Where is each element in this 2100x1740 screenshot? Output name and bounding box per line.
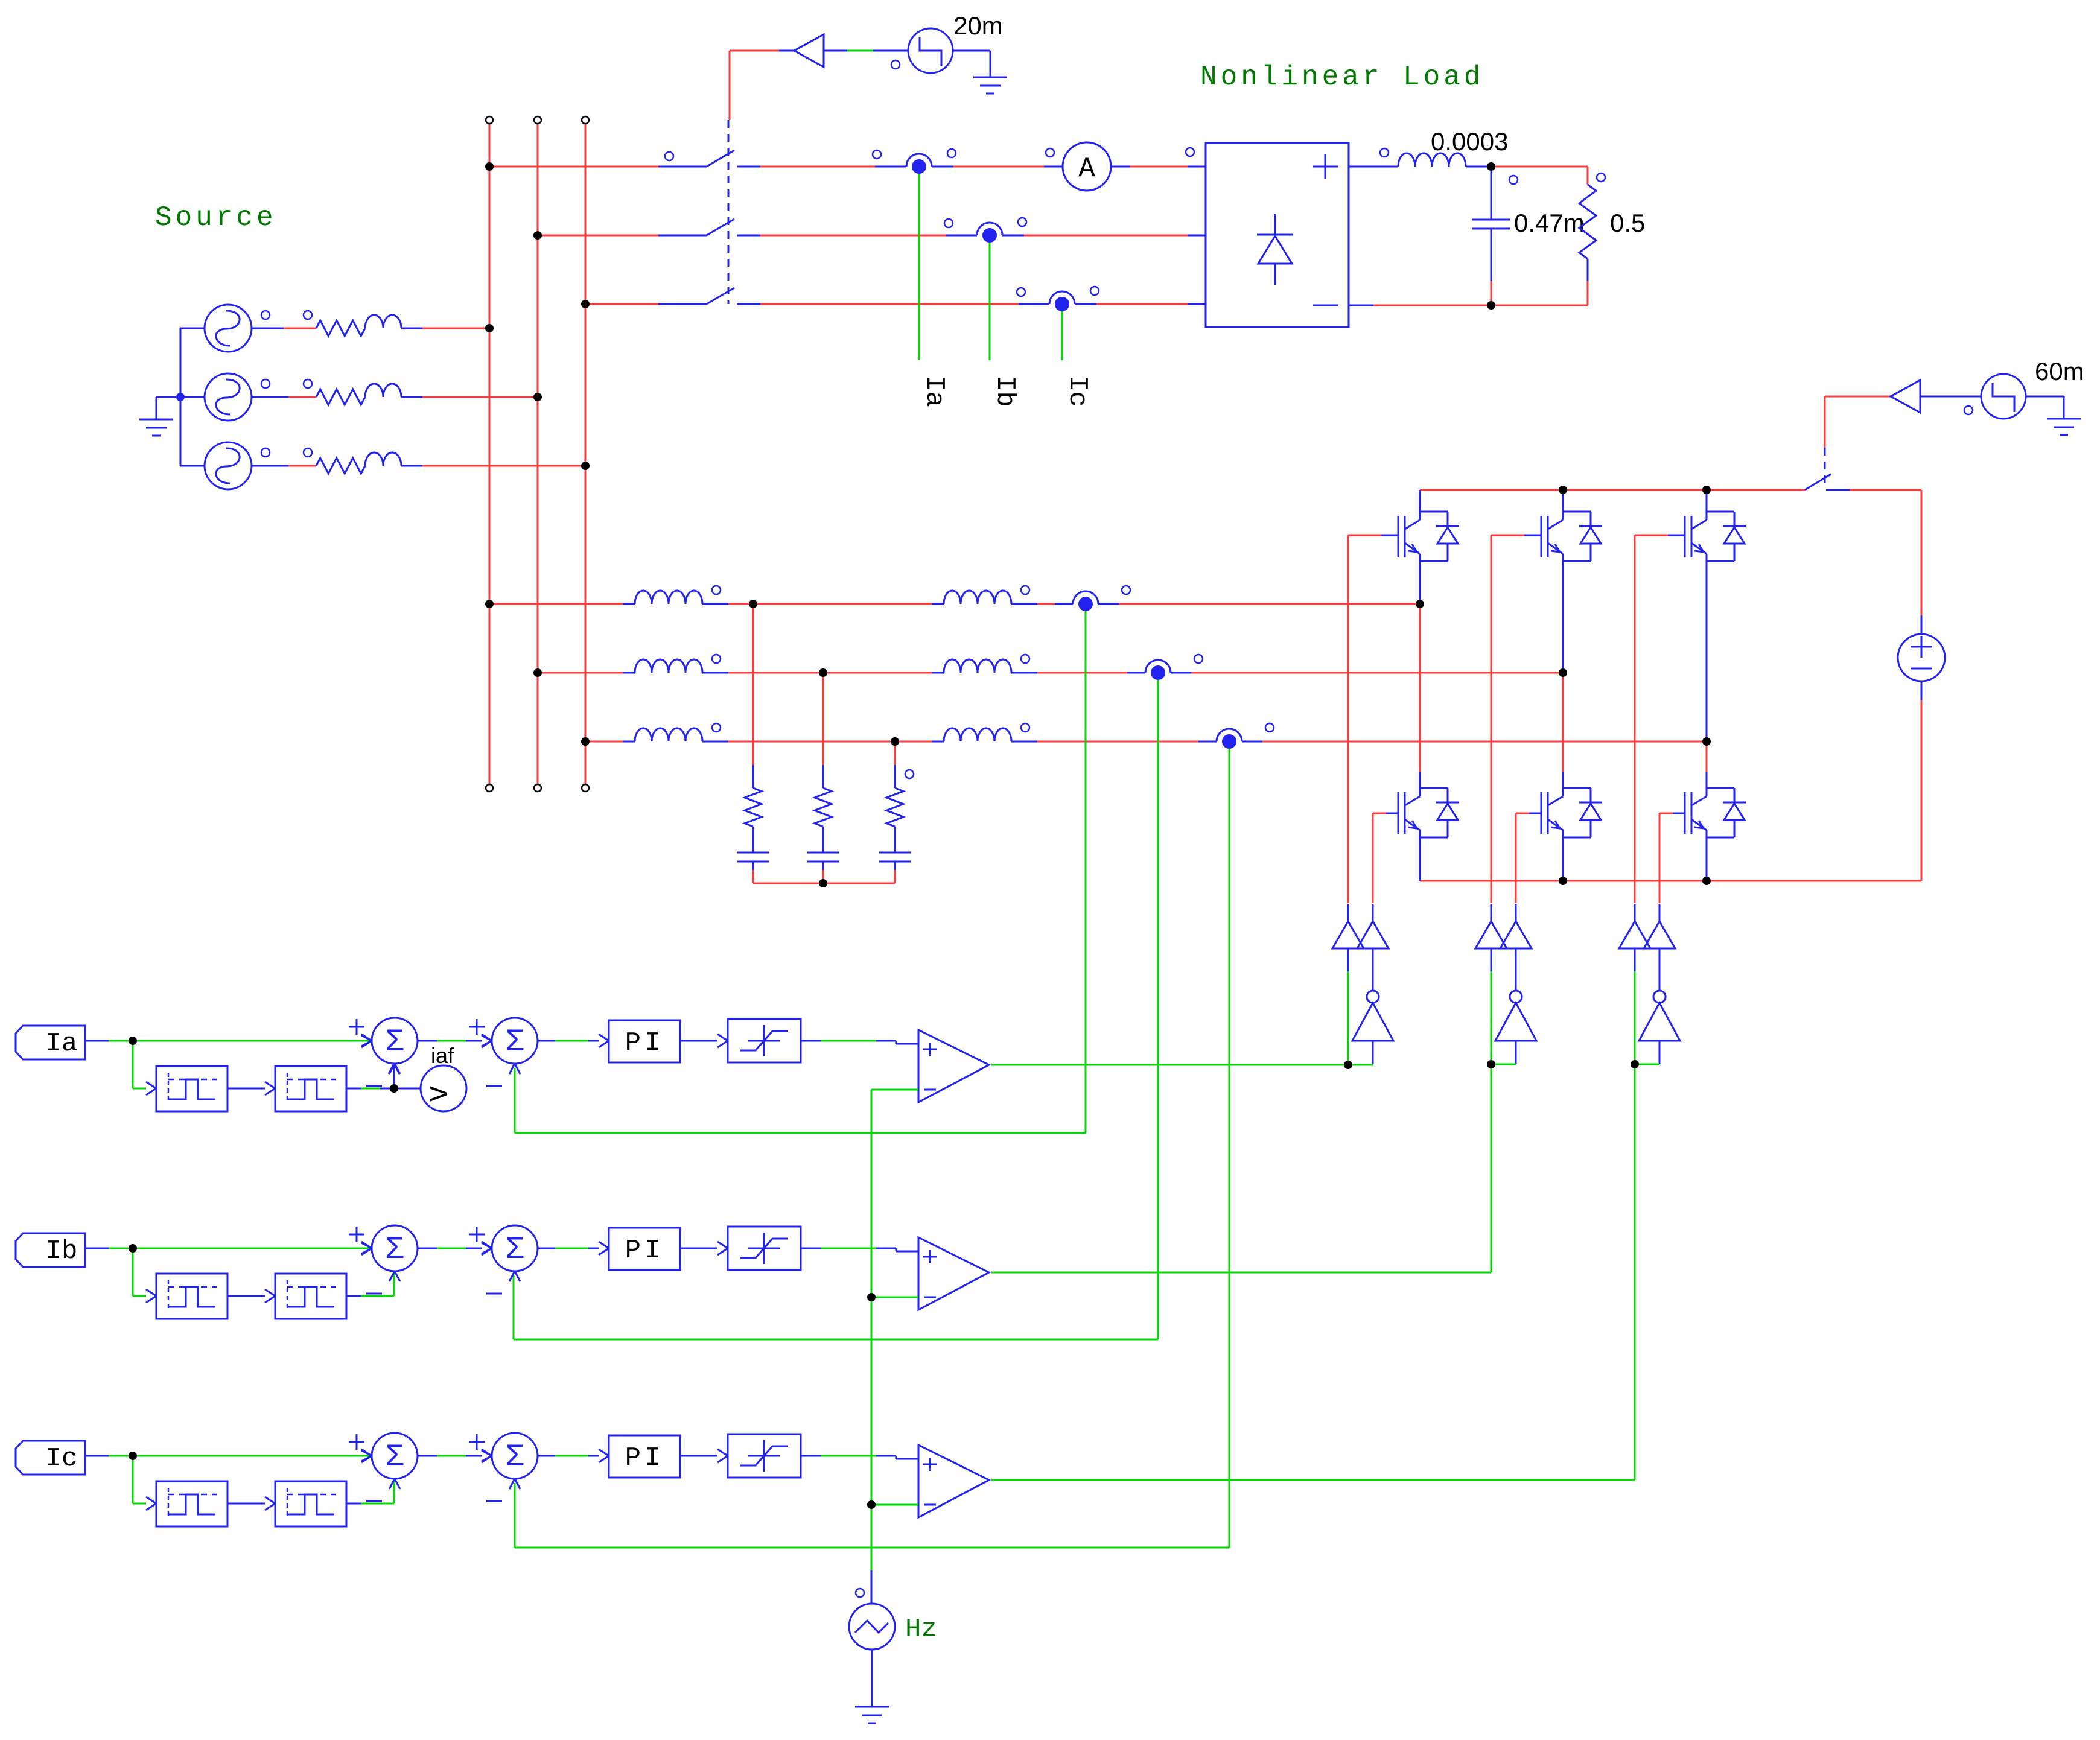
gating block pair leg3 [1619, 904, 1675, 971]
wire row1 ammeter-rectifier [1111, 148, 1206, 167]
wire sensor to leg 3 [1242, 741, 1707, 743]
wire row2 breaker-sensor [737, 235, 977, 237]
text Hz [905, 1615, 937, 1645]
wire Sc2 to PI c [538, 1449, 609, 1462]
net label triangle 20m [794, 34, 824, 67]
gating block pair leg2 [1475, 904, 1532, 971]
step source 60m [1964, 374, 2026, 419]
node RC branch b [819, 668, 827, 677]
resistor Rs3 [304, 448, 365, 474]
wire comparator b output [991, 1064, 1516, 1272]
wire L1a to node [702, 603, 753, 605]
node bottom bus leg3 [1702, 877, 1711, 885]
wire bus to L1a [489, 603, 635, 605]
svg-text:Ia: Ia [46, 1029, 78, 1059]
ground 60m [2047, 419, 2081, 435]
wire leg1 phase [1419, 561, 1421, 604]
node load top [1487, 162, 1495, 171]
wire source neutral [180, 328, 205, 466]
wire leg3 emitter to bus [1706, 837, 1708, 881]
node bus1 source [485, 324, 494, 332]
wire leg2 mid drop [1562, 673, 1564, 788]
switch S3 blade [707, 288, 734, 304]
svg-text:Source: Source [155, 202, 277, 233]
svg-text:20m: 20m [953, 11, 1003, 40]
on-off controller block c2 [275, 1481, 346, 1526]
transistor Q1' (bottom IGBT + diode) [1398, 788, 1459, 837]
text iaf [431, 1043, 454, 1068]
wire gate a up [1347, 971, 1349, 1064]
node phase 1 [1416, 600, 1424, 608]
node bus3 apf tap [581, 737, 590, 746]
wire ib feedback [514, 680, 1158, 1339]
wire gate column right leg1 [1372, 813, 1374, 903]
wire rectifier minus [1349, 305, 1588, 306]
wire gate b up [1491, 971, 1492, 1064]
ac source VC [205, 442, 270, 489]
wire gate column left leg2 [1491, 535, 1492, 903]
wire to bus 3 [401, 465, 585, 467]
text 20m [953, 11, 1003, 40]
wire step source to ground [953, 51, 990, 77]
net label triangle 60m [1891, 380, 1920, 413]
inductor L1a [635, 586, 721, 604]
limiter block c [728, 1434, 801, 1478]
wire filter out a [346, 1088, 394, 1090]
wire row3 breaker-sensor [737, 303, 1049, 305]
text label 'Nonlinear Load' [1200, 62, 1484, 93]
comparator b [918, 1237, 989, 1310]
wire leg2 emitter to bus [1562, 837, 1564, 881]
wire Sa2 to PI a [538, 1034, 609, 1047]
wire probe Ib [989, 243, 991, 360]
node bus2 apf tap [533, 668, 542, 677]
wire ic feedback [515, 749, 1229, 1548]
svg-text:0.5: 0.5 [1610, 209, 1645, 237]
wire PI to limiter a [680, 1034, 728, 1047]
node top bus leg2 [1559, 486, 1567, 494]
wire 60m to ground [2026, 396, 2064, 419]
current sensor iaf [1073, 586, 1130, 611]
svg-text:Σ: Σ [505, 1232, 524, 1268]
sum block Sa2 [482, 1018, 538, 1074]
ac source VB [205, 373, 270, 421]
gating block pair leg1 [1332, 904, 1389, 971]
on-off controller block a1 [156, 1066, 227, 1111]
node RC branch a [749, 600, 757, 608]
node iaf tap [390, 1084, 398, 1093]
wire to bus 2 [401, 396, 538, 398]
wire sensor to leg 1 [1098, 603, 1420, 605]
ammeter A [1046, 142, 1111, 191]
svg-text:PI: PI [625, 1028, 664, 1058]
comparator a [918, 1030, 989, 1102]
ground source [139, 397, 180, 436]
transistor Q1 (top IGBT + diode) [1398, 512, 1459, 561]
inductor L1b [635, 655, 721, 673]
wire row2 sensor-rectifier [1002, 218, 1206, 235]
wire L2c to sensor [1011, 741, 1217, 743]
text probe label Ia [919, 375, 949, 407]
wire gate bottom Q3' [1659, 813, 1685, 814]
svg-text:Ib: Ib [46, 1236, 78, 1266]
svg-text:60m: 60m [2035, 357, 2084, 386]
text plus Sc1 [349, 1434, 364, 1450]
on-off controller block b2 [275, 1274, 346, 1319]
wire limiter to comparator c [801, 1456, 918, 1459]
wire gate column left leg1 [1347, 535, 1349, 903]
wire PI to limiter b [680, 1242, 728, 1255]
svg-text:Σ: Σ [385, 1440, 404, 1475]
wire row3 sensor-rectifier [1075, 287, 1206, 304]
svg-text:0.47m: 0.47m [1514, 209, 1585, 237]
wire comparator a output [991, 1064, 1373, 1066]
wire dc source to bottom bus [1921, 681, 1923, 881]
svg-text:Ic: Ic [1062, 375, 1092, 407]
node bus3 top tap [581, 300, 590, 308]
wire dc top bus [1420, 489, 1805, 491]
svg-text:Σ: Σ [505, 1440, 524, 1475]
node bus1 top tap [485, 162, 494, 171]
wire Sa1 to Sa2 [418, 1034, 492, 1047]
limiter block b [728, 1227, 801, 1270]
input tag Ia [16, 1026, 85, 1059]
resistor Rs2 [304, 379, 365, 405]
inverter (NOT) gate leg3 [1639, 971, 1680, 1064]
ground Hz [855, 1707, 889, 1723]
sum block Sb1 [361, 1225, 418, 1281]
wire leg3 phase [1706, 561, 1708, 741]
svg-text:Σ: Σ [385, 1024, 404, 1060]
wire row1 to breaker [489, 166, 707, 168]
wire rectifier plus [1349, 166, 1398, 168]
svg-text:iaf: iaf [431, 1043, 454, 1068]
svg-text:Nonlinear Load: Nonlinear Load [1200, 62, 1484, 93]
wire gate top Q3 [1635, 535, 1685, 536]
inductor Ls3 [365, 452, 401, 466]
wire tag Ia out [86, 1034, 372, 1047]
inductor Ldc 0.0003 [1380, 148, 1466, 167]
wire leg3 mid drop [1706, 741, 1708, 788]
wire block link b [227, 1289, 275, 1303]
wire leg1 emitter to bus [1419, 837, 1421, 881]
wire L1b to node [702, 672, 823, 674]
svg-text:Σ: Σ [505, 1024, 524, 1060]
node phase 3 [1702, 737, 1711, 746]
wire leg1 top drop [1419, 490, 1421, 512]
wire inductor-node [1466, 166, 1491, 168]
text 0.47m [1514, 209, 1585, 237]
text 60m [2035, 357, 2084, 386]
wire up to sum1 a [389, 1064, 399, 1088]
wire tag Ib out [86, 1242, 372, 1255]
resistor Rdc 0.5 [1579, 167, 1605, 305]
current sensor Ic top [1017, 288, 1075, 311]
transistor Q2 (top IGBT + diode) [1541, 512, 1602, 561]
wire tag Ic out [86, 1449, 372, 1462]
wire gate c up [1634, 971, 1636, 1064]
wire hz to ground [871, 1650, 873, 1707]
inductor L1c [635, 723, 721, 741]
current sensor ibf [1145, 655, 1203, 680]
PI block a [609, 1020, 680, 1062]
wire gate column left leg3 [1634, 535, 1636, 903]
node tap Ic [129, 1452, 137, 1460]
wire sensor to leg 2 [1171, 672, 1563, 674]
node source neutral [176, 393, 185, 401]
svg-text:PI: PI [625, 1236, 664, 1266]
node tap Ib [129, 1244, 137, 1253]
text probe label Ib [990, 375, 1020, 407]
bus b vertical [534, 116, 541, 792]
wire leg1 mid drop [1419, 604, 1421, 788]
wire bus to L1b [538, 672, 635, 674]
wire comparator minus column [871, 1090, 918, 1570]
svg-text:Ib: Ib [990, 375, 1020, 407]
wire row1 sensor-ammeter [932, 166, 1063, 168]
svg-text:Ic: Ic [46, 1444, 78, 1474]
input tag Ic [16, 1441, 85, 1475]
wire drop to filter Ic [133, 1456, 156, 1510]
bus a vertical [486, 116, 493, 792]
wire load top [1491, 166, 1588, 168]
switch S60 blade [1805, 474, 1831, 490]
breaker gang dashed link [728, 120, 730, 304]
wire S60 to dc source [1826, 490, 1921, 634]
dc source Vdc [1898, 634, 1945, 681]
node RC bottom [819, 879, 827, 887]
wire triangle to step source 20m [824, 50, 908, 52]
node load bottom [1487, 301, 1495, 310]
bus c vertical [582, 116, 589, 792]
node bottom bus leg2 [1559, 877, 1567, 885]
rectifier bridge BD1 [1206, 143, 1349, 327]
text minus Sa1 [366, 1085, 382, 1087]
capacitor Cdc 0.47m [1472, 167, 1518, 305]
wire limiter to comparator a [801, 1041, 918, 1044]
PI block c [609, 1435, 680, 1478]
wire gate column right leg3 [1659, 813, 1661, 903]
PI block b [609, 1228, 680, 1270]
node minus b [867, 1293, 876, 1301]
wire Sb1 to Sb2 [418, 1242, 492, 1255]
text plus Sa2 [469, 1019, 485, 1035]
wire source phase 1 [252, 328, 316, 329]
wire gate bottom Q1' [1373, 813, 1398, 814]
svg-text:V: V [425, 1085, 456, 1102]
on-off controller block c1 [156, 1481, 227, 1526]
wire leg3 top drop [1706, 490, 1708, 512]
node bus3 source [581, 462, 590, 470]
svg-text:0.0003: 0.0003 [1431, 127, 1508, 156]
node RC branch c [891, 737, 899, 746]
inductor L2b [944, 655, 1029, 673]
svg-text:Hz: Hz [905, 1615, 937, 1645]
wire row2 to breaker [538, 235, 707, 237]
text minus Sb1 [366, 1293, 382, 1295]
node tap Ia [129, 1037, 137, 1045]
transistor Q2' (bottom IGBT + diode) [1541, 788, 1602, 837]
step source 20m [891, 28, 953, 73]
text plus Sa1 [349, 1019, 364, 1035]
wire filter out b [346, 1271, 394, 1296]
text 0.5 [1610, 209, 1645, 237]
wire ia feedback [515, 611, 1086, 1133]
wire triangle to step source 60m [1920, 396, 1981, 398]
wire block link c [227, 1497, 275, 1510]
wire RC bottom rail [753, 883, 895, 884]
resistor Rdb + capacitor Cdb [807, 673, 839, 883]
resistor Rda + capacitor Cda [737, 604, 769, 883]
transistor Q3 (top IGBT + diode) [1685, 512, 1746, 561]
text plus Sb2 [469, 1227, 485, 1242]
svg-text:Σ: Σ [385, 1232, 404, 1268]
wire filter out c [346, 1479, 394, 1503]
wire gate bottom Q2' [1516, 813, 1541, 814]
inductor L2a [944, 586, 1029, 604]
text plus Sb1 [349, 1227, 364, 1242]
node gate c [1631, 1060, 1639, 1068]
node minus c [867, 1500, 876, 1509]
wire gate top Q1 [1348, 535, 1398, 536]
text probe label Ic [1062, 375, 1092, 407]
inverter (NOT) gate leg2 [1495, 971, 1536, 1064]
wire limiter to comparator b [801, 1248, 918, 1251]
text minus Sa2 [486, 1085, 502, 1087]
wire bus to L1c [585, 741, 635, 743]
wire probe Ia [918, 174, 920, 360]
switch S1 blade [665, 150, 734, 167]
voltmeter probe iaf [421, 1065, 466, 1111]
limiter block a [728, 1019, 801, 1062]
wire drop to filter Ia [133, 1041, 156, 1095]
sum block Sa1 [361, 1018, 418, 1074]
resistor Rdc + capacitor Cdc [879, 741, 914, 883]
wire source phase 2 [252, 396, 316, 398]
wire leg2 phase [1562, 561, 1564, 673]
resistor Rs1 [304, 311, 365, 336]
svg-text:A: A [1078, 153, 1095, 185]
wire source phase 3 [252, 465, 316, 467]
text label 'Source' [155, 202, 277, 233]
wire row1 breaker-sensor [737, 166, 906, 168]
wire row3 to breaker [585, 303, 707, 305]
wire to hz source [871, 1570, 873, 1604]
carrier source Hz [849, 1589, 895, 1650]
wire PI to limiter c [680, 1449, 728, 1462]
svg-text:Ia: Ia [919, 375, 949, 407]
wire node to L2c [895, 741, 944, 743]
transistor Q3' (bottom IGBT + diode) [1685, 788, 1746, 837]
switch S2 blade [707, 219, 734, 235]
on-off controller block a2 [275, 1066, 346, 1111]
inductor L2c [944, 723, 1029, 741]
comparator c [918, 1445, 989, 1517]
wire 20m control [730, 51, 794, 120]
wire to bus 1 [401, 328, 489, 329]
text minus Sc1 [366, 1500, 382, 1502]
wire drop to filter Ib [133, 1248, 156, 1303]
ground 20m [973, 77, 1007, 94]
wire Sb2 to PI b [538, 1242, 609, 1255]
node gate b [1487, 1060, 1495, 1068]
ac source VA [205, 305, 270, 352]
text minus Sb2 [486, 1293, 502, 1295]
wire L1c to node [702, 741, 895, 743]
sum block Sc2 [482, 1433, 538, 1489]
node bus2 source [533, 393, 542, 401]
switch S60 gang dashed [1824, 448, 1826, 483]
wire gate column right leg2 [1515, 813, 1517, 903]
node top bus leg3 [1702, 486, 1711, 494]
wire L2b to sensor [1011, 672, 1145, 674]
sum block Sb2 [482, 1225, 538, 1281]
text plus Sc2 [469, 1434, 485, 1450]
current sensor Ia top [873, 149, 956, 174]
inductor Ls2 [365, 384, 401, 397]
input tag Ib [16, 1233, 85, 1267]
wire probe Ic [1061, 311, 1063, 360]
on-off controller block b1 [156, 1274, 227, 1319]
node gate a [1344, 1061, 1352, 1069]
wire block link a [227, 1082, 275, 1095]
wire comparator c output [991, 1064, 1659, 1480]
inverter (NOT) gate leg1 [1352, 971, 1393, 1064]
wire dc bottom bus [1420, 880, 1921, 882]
inductor Ls1 [365, 315, 401, 328]
wire Sc1 to Sc2 [418, 1449, 492, 1462]
sum block Sc1 [361, 1433, 418, 1489]
wire 60m control [1825, 396, 1891, 448]
node bus2 top tap [533, 231, 542, 240]
current sensor Ib top [944, 219, 1002, 243]
node phase 2 [1559, 668, 1567, 677]
wire leg2 top drop [1562, 490, 1564, 512]
wire node to L2a [753, 603, 944, 605]
wire node to L2b [823, 672, 944, 674]
current sensor icf [1217, 723, 1274, 749]
node bus1 apf tap [485, 600, 494, 608]
text minus Sc2 [486, 1500, 502, 1502]
wire L2a to sensor [1011, 603, 1073, 605]
svg-text:PI: PI [625, 1443, 664, 1473]
wire to v-probe [394, 1088, 421, 1090]
wire gate top Q2 [1491, 535, 1541, 536]
text 0.0003 [1431, 127, 1508, 156]
